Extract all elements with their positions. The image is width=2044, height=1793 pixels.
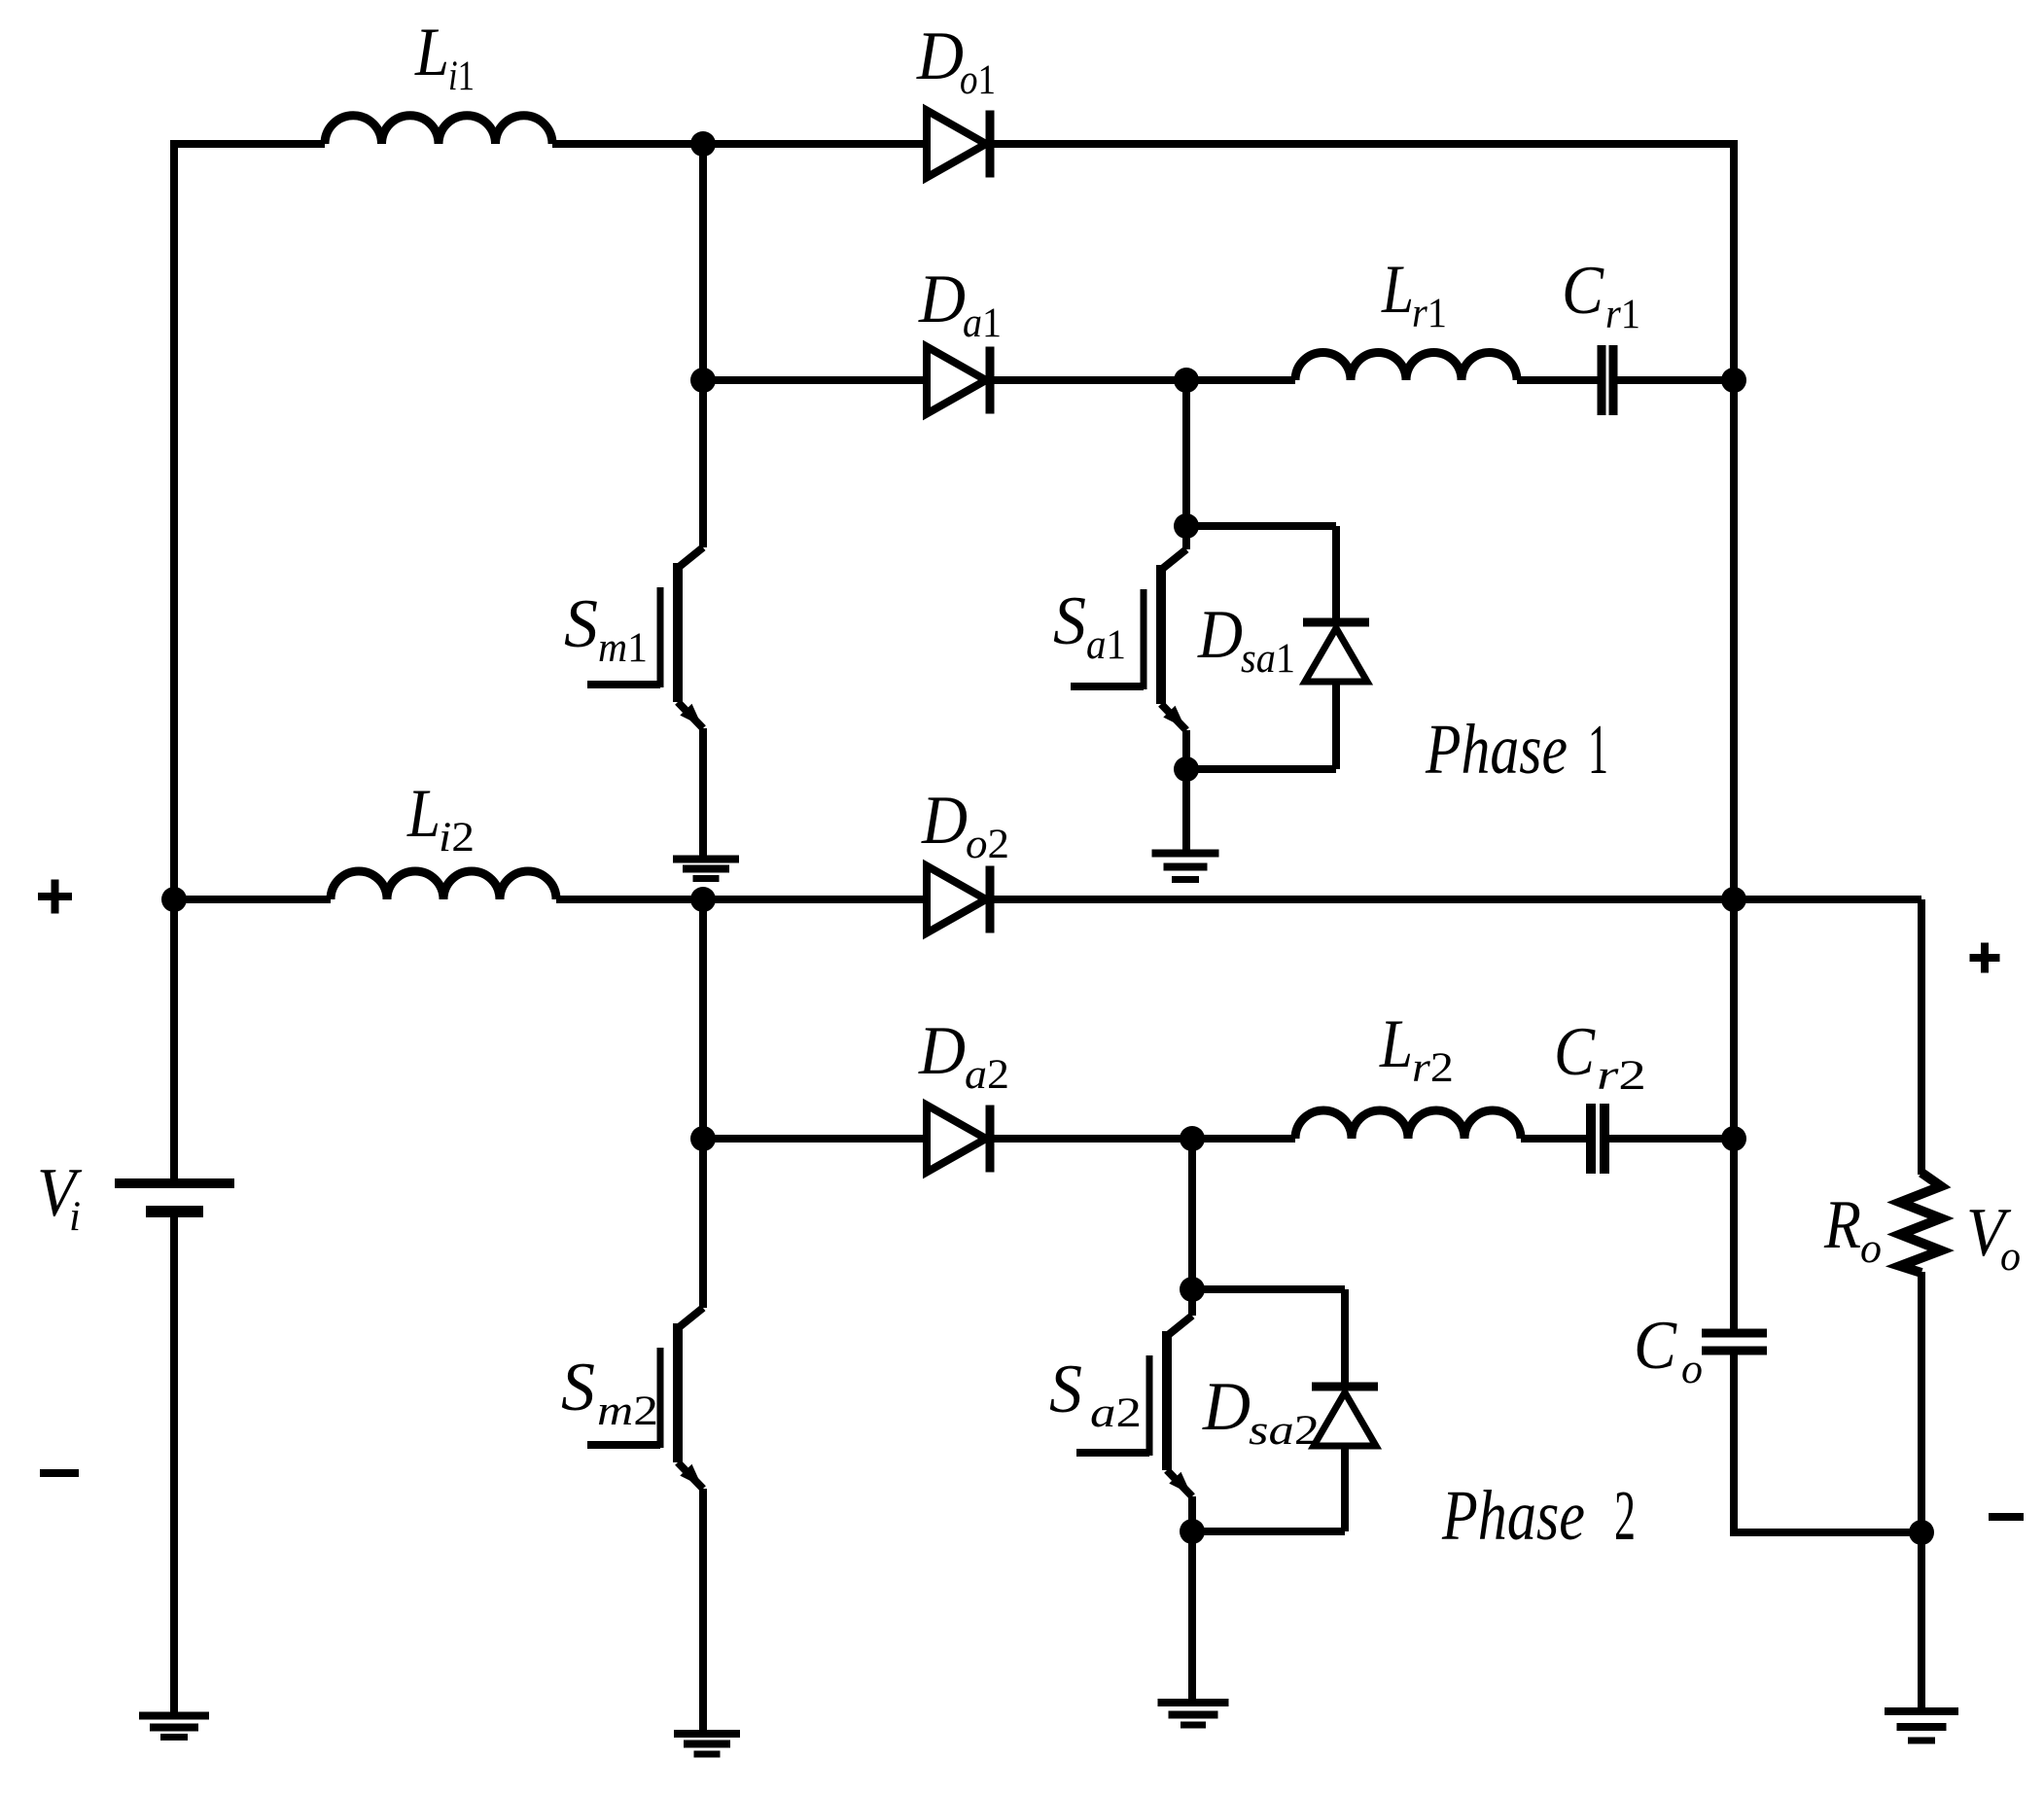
svg-text:D: D bbox=[1202, 1369, 1251, 1445]
svg-text:L: L bbox=[1379, 1006, 1413, 1082]
svg-text:a2: a2 bbox=[965, 1052, 1009, 1098]
svg-text:a2: a2 bbox=[1090, 1390, 1142, 1436]
svg-text:sa1: sa1 bbox=[1241, 636, 1295, 682]
svg-text:D: D bbox=[918, 262, 966, 337]
svg-text:m1: m1 bbox=[598, 625, 648, 671]
svg-text:2: 2 bbox=[1614, 1476, 1636, 1555]
svg-text:m2: m2 bbox=[597, 1389, 658, 1434]
svg-text:o2: o2 bbox=[966, 822, 1009, 867]
svg-text:a1: a1 bbox=[963, 300, 1002, 346]
svg-text:i: i bbox=[69, 1194, 81, 1240]
svg-text:D: D bbox=[921, 783, 968, 859]
svg-text:i1: i1 bbox=[448, 53, 475, 99]
svg-text:i2: i2 bbox=[439, 815, 475, 861]
svg-text:r1: r1 bbox=[1605, 292, 1640, 337]
svg-text:C: C bbox=[1554, 1014, 1596, 1090]
svg-text:D: D bbox=[1197, 597, 1243, 673]
svg-text:Phase: Phase bbox=[1425, 710, 1568, 789]
svg-text:sa2: sa2 bbox=[1249, 1408, 1320, 1454]
svg-text:1: 1 bbox=[1588, 710, 1608, 789]
svg-text:R: R bbox=[1823, 1187, 1861, 1263]
svg-text:L: L bbox=[406, 776, 441, 852]
svg-text:S: S bbox=[1049, 1352, 1082, 1427]
svg-text:Phase: Phase bbox=[1441, 1476, 1585, 1555]
svg-text:o: o bbox=[1681, 1347, 1703, 1392]
svg-text:C: C bbox=[1562, 253, 1604, 329]
svg-text:D: D bbox=[918, 1013, 966, 1089]
svg-text:r2: r2 bbox=[1597, 1053, 1646, 1099]
svg-text:o1: o1 bbox=[960, 57, 996, 103]
svg-text:D: D bbox=[916, 18, 964, 94]
svg-text:S: S bbox=[561, 1350, 595, 1425]
svg-text:C: C bbox=[1634, 1308, 1678, 1384]
svg-text:S: S bbox=[564, 586, 598, 662]
svg-text:L: L bbox=[1381, 252, 1414, 328]
svg-text:S: S bbox=[1053, 583, 1086, 659]
svg-text:L: L bbox=[414, 15, 449, 90]
svg-text:o: o bbox=[2000, 1234, 2021, 1280]
svg-text:o: o bbox=[1860, 1226, 1882, 1272]
svg-text:r1: r1 bbox=[1412, 291, 1447, 336]
svg-text:r2: r2 bbox=[1412, 1045, 1454, 1091]
svg-text:a1: a1 bbox=[1086, 622, 1126, 668]
